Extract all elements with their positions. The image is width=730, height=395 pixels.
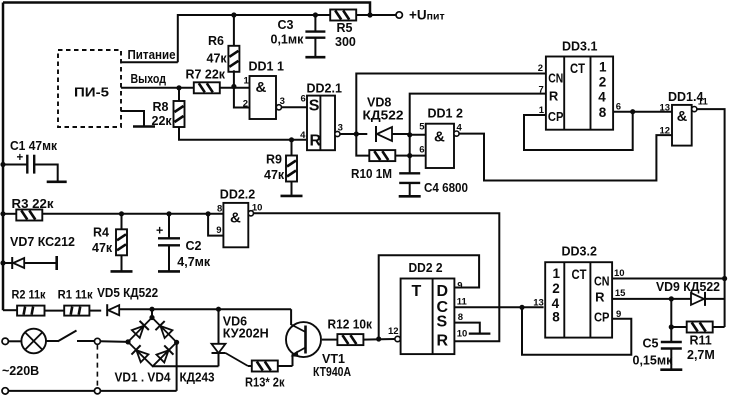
resistor R7 xyxy=(194,82,220,93)
thyristor VD6 xyxy=(218,309,220,344)
svg-text:Выход: Выход xyxy=(131,72,167,86)
svg-text:0,15мк: 0,15мк xyxy=(633,354,674,368)
svg-text:47к: 47к xyxy=(207,52,228,66)
svg-text:+: + xyxy=(156,224,163,238)
svg-text:12: 12 xyxy=(388,326,399,337)
diode VD9 xyxy=(691,292,705,306)
svg-text:R1 11к: R1 11к xyxy=(58,288,94,302)
svg-text:DD2.2: DD2.2 xyxy=(220,188,255,202)
svg-text:CN: CN xyxy=(594,274,610,289)
svg-text:VD1 . VD4: VD1 . VD4 xyxy=(115,371,171,385)
svg-text:DD1 2: DD1 2 xyxy=(428,107,463,121)
svg-text:КД522: КД522 xyxy=(363,109,404,123)
ground of C4 xyxy=(399,195,421,198)
capacitor C2 xyxy=(168,214,170,238)
svg-text:6: 6 xyxy=(419,145,424,156)
svg-text:R2 11к: R2 11к xyxy=(12,287,47,301)
wire VT1 emitter xyxy=(292,355,294,367)
svg-text:15: 15 xyxy=(615,288,626,299)
counter DD3.2 xyxy=(545,262,612,337)
wire R13 to VT1 emitter xyxy=(278,365,293,367)
svg-text:R4: R4 xyxy=(93,226,109,240)
svg-text:C1 47мк: C1 47мк xyxy=(10,139,58,153)
node bridge left xyxy=(125,339,130,344)
svg-text:47к: 47к xyxy=(264,168,285,182)
svg-text:&: & xyxy=(677,109,688,125)
svg-text:300: 300 xyxy=(335,35,356,49)
wire +U top rail xyxy=(3,3,370,16)
svg-text:DD2.1: DD2.1 xyxy=(307,82,342,96)
wire DD1.2 out to DD1.4 pin12 xyxy=(459,134,672,181)
resistor R6 xyxy=(233,15,235,47)
ground of C3 xyxy=(305,56,325,59)
wire VD6 gate to R13 xyxy=(226,353,249,366)
terminal +Upit xyxy=(396,12,402,18)
wire VT1 base to R12 xyxy=(322,339,338,341)
resistor R5 xyxy=(330,10,356,21)
zener diode VD7 xyxy=(0,260,5,265)
svg-text:4: 4 xyxy=(300,130,306,141)
wire DD2.2 out to T-ff R pin10 xyxy=(254,213,500,341)
svg-text:R11: R11 xyxy=(690,334,712,348)
wire DD3.2 CP loop pin9 xyxy=(522,307,631,354)
switch SA xyxy=(46,340,58,342)
svg-text:13: 13 xyxy=(533,298,544,309)
node bridge top xyxy=(149,315,154,320)
svg-text:4: 4 xyxy=(552,296,560,311)
node pin11 pin13 xyxy=(519,305,524,310)
svg-text:CP: CP xyxy=(594,310,610,325)
svg-text:R5: R5 xyxy=(337,21,353,35)
resistor R4 xyxy=(121,214,123,229)
wire DD3.1 out pin6 to DD1.4 pin13 xyxy=(613,111,672,113)
resistor R10 xyxy=(369,150,395,161)
svg-text:4: 4 xyxy=(598,90,606,105)
wire R12 to DD2 pin12 xyxy=(363,338,395,341)
node DD2.2 inputs xyxy=(206,211,211,216)
wire C pin11 out xyxy=(454,306,543,308)
svg-text:R7 22к: R7 22к xyxy=(186,68,226,82)
svg-text:11: 11 xyxy=(698,97,709,108)
ground of C5 xyxy=(660,368,682,371)
diode VD5 xyxy=(89,310,101,312)
svg-text:Питание: Питание xyxy=(128,48,176,62)
wire to bridge right xyxy=(176,342,178,391)
counter DD3.1 xyxy=(546,57,613,130)
svg-text:КТ940А: КТ940А xyxy=(313,365,351,379)
svg-text:9: 9 xyxy=(457,281,462,292)
capacitor C1 xyxy=(0,162,5,167)
svg-text:S: S xyxy=(437,314,448,331)
svg-text:10: 10 xyxy=(457,329,468,340)
diode bridge VD1..VD4 xyxy=(128,318,177,367)
svg-text:CN: CN xyxy=(548,70,563,85)
wire DD2.2 pin9 tie xyxy=(208,214,223,236)
block ПИ-5 xyxy=(58,50,121,127)
svg-text:CT: CT xyxy=(570,61,586,76)
node DD2.1 out junction xyxy=(354,131,359,136)
svg-text:2: 2 xyxy=(243,99,248,110)
svg-text:T: T xyxy=(412,283,422,300)
svg-text:DD2 2: DD2 2 xyxy=(409,261,443,275)
bridge diode VD2 xyxy=(155,321,173,339)
lamp HL xyxy=(8,340,21,342)
wire D feedback loop xyxy=(379,255,479,339)
svg-text:VT1: VT1 xyxy=(322,352,345,366)
svg-text:R3 22к: R3 22к xyxy=(12,197,55,211)
svg-text:S: S xyxy=(309,97,320,114)
ground of ПИ-5 xyxy=(121,111,144,126)
flip-flop DD2.1 xyxy=(307,96,335,151)
svg-text:R: R xyxy=(549,89,559,104)
svg-text:8: 8 xyxy=(217,204,222,215)
capacitor C5 xyxy=(661,341,682,343)
svg-text:8: 8 xyxy=(599,105,607,120)
svg-text:R12 10к: R12 10к xyxy=(328,318,373,332)
resistor R11 xyxy=(670,299,672,342)
svg-text:DD3.2: DD3.2 xyxy=(562,245,597,259)
ground bar of pin8 xyxy=(469,333,491,335)
flip-flop DD2 2 xyxy=(401,279,455,355)
resistor R3 xyxy=(0,211,5,216)
node VD6 top xyxy=(216,307,221,312)
wire DD1.4 out along right edge xyxy=(697,109,725,327)
node Выход R8 R7 xyxy=(176,85,181,90)
wire VT1 collector xyxy=(290,309,292,325)
svg-text:9: 9 xyxy=(216,225,221,236)
bridge diode VD4 xyxy=(156,345,174,363)
resistor R8 xyxy=(178,88,180,101)
svg-text:2: 2 xyxy=(538,63,543,74)
svg-text:11: 11 xyxy=(457,297,468,308)
bridge diode VD3 xyxy=(131,345,149,363)
svg-text:CT: CT xyxy=(572,267,588,282)
svg-text:КУ202Н: КУ202Н xyxy=(223,327,269,341)
wire mains bottom xyxy=(8,390,94,392)
logic gate DD2.2 xyxy=(223,203,248,247)
resistor R12 xyxy=(337,334,363,345)
node C2 top xyxy=(166,211,171,216)
svg-text:VD9 КД522: VD9 КД522 xyxy=(656,280,720,294)
wire to DD3.1 CN pin2 xyxy=(356,74,546,135)
svg-text:1: 1 xyxy=(599,60,607,75)
svg-text:8: 8 xyxy=(458,312,463,323)
svg-text:2,7М: 2,7М xyxy=(687,348,715,362)
node bridge right xyxy=(174,340,179,345)
diode VD8 xyxy=(376,126,392,142)
ground of C2 xyxy=(158,270,180,273)
svg-text:R6: R6 xyxy=(208,34,224,48)
node R5 top rail junction xyxy=(367,12,372,17)
dashed link xyxy=(96,345,98,388)
svg-text:R: R xyxy=(437,332,449,349)
svg-text:R10 1М: R10 1М xyxy=(351,167,392,181)
svg-text:R13* 2к: R13* 2к xyxy=(245,376,285,390)
node pin6 junction xyxy=(630,109,635,114)
wire node column to DD3.1 R pin7 xyxy=(410,94,546,174)
wire DD3.2 CN pin10 xyxy=(612,278,725,280)
svg-text:1: 1 xyxy=(244,76,250,87)
svg-text:1: 1 xyxy=(553,266,561,281)
svg-text:R9: R9 xyxy=(266,153,282,167)
wire VD5 to bridge top and VT1 xyxy=(119,308,291,310)
svg-text:+: + xyxy=(17,152,24,164)
svg-text:0,1мк: 0,1мк xyxy=(271,33,305,47)
node R4 top xyxy=(119,211,124,216)
svg-text:~220В: ~220В xyxy=(2,364,39,378)
wire switch to bridge xyxy=(101,340,129,343)
svg-text:13: 13 xyxy=(660,103,671,114)
svg-text:DD3.1: DD3.1 xyxy=(562,40,597,54)
terminal mains bottom xyxy=(2,388,8,394)
wire Питание from ПИ-5 xyxy=(121,61,178,63)
svg-text:C5: C5 xyxy=(643,337,659,351)
node R6 top xyxy=(231,12,236,17)
resistor R13 xyxy=(252,361,278,372)
capacitor C4 xyxy=(399,172,420,174)
svg-text:&: & xyxy=(230,209,241,226)
resistor R2 xyxy=(3,309,17,311)
svg-text:+Uпит: +Uпит xyxy=(409,8,445,23)
wire DD3.1 CP loop pin1 xyxy=(524,112,633,150)
svg-text:C3: C3 xyxy=(278,18,294,32)
ground of R4 xyxy=(111,270,133,273)
logic gate DD1.4 xyxy=(672,105,692,146)
wire bridge bottom to VD6 cathode xyxy=(153,365,219,367)
node column VD8 R10 xyxy=(407,132,412,137)
svg-text:DD1 1: DD1 1 xyxy=(249,60,284,74)
svg-text:VD7 КС212: VD7 КС212 xyxy=(10,235,75,249)
svg-text:C2: C2 xyxy=(186,239,202,253)
capacitor C3 xyxy=(314,15,316,32)
svg-text:4,7мк: 4,7мк xyxy=(177,255,211,269)
svg-text:2: 2 xyxy=(599,75,607,90)
svg-text:R: R xyxy=(310,133,322,150)
svg-text:VD5 КД522: VD5 КД522 xyxy=(97,286,158,300)
svg-text:CP: CP xyxy=(548,109,564,124)
wire VD8 to node xyxy=(392,133,410,135)
wire power rail to R5 xyxy=(178,15,331,62)
svg-text:&: & xyxy=(434,128,445,145)
svg-text:R8: R8 xyxy=(153,100,169,114)
wire node to DD1.2 pin5 xyxy=(410,134,426,136)
wire Выход from ПИ-5 xyxy=(121,87,194,89)
svg-text:10: 10 xyxy=(614,268,625,279)
terminal mains top xyxy=(2,338,8,344)
svg-text:8: 8 xyxy=(552,310,560,325)
ground of R9 xyxy=(281,195,303,198)
wire left supply bus xyxy=(2,3,5,311)
transistor VT1 xyxy=(286,322,321,357)
wire DD3.2 R pin15 xyxy=(612,298,690,300)
svg-text:VD8: VD8 xyxy=(367,96,391,110)
svg-text:47к: 47к xyxy=(92,241,113,255)
ground of C1 xyxy=(47,181,67,184)
svg-text:R: R xyxy=(595,290,605,305)
svg-text:D: D xyxy=(437,283,449,300)
wire to R10 left xyxy=(356,134,369,156)
wire R5 to +Upit terminal xyxy=(356,14,396,16)
node VD9 R11 C5 xyxy=(669,296,674,301)
svg-text:6: 6 xyxy=(301,94,306,105)
logic gate DD1.2 xyxy=(426,124,454,168)
wire R7 junction to DD1.1 pins xyxy=(220,87,250,89)
svg-text:2: 2 xyxy=(552,281,560,296)
resistor R9 xyxy=(289,137,294,142)
svg-text:22к: 22к xyxy=(152,114,173,128)
svg-text:12: 12 xyxy=(660,126,671,137)
svg-text:ПИ-5: ПИ-5 xyxy=(74,85,109,100)
node R12 T-loop xyxy=(376,336,381,341)
svg-text:C4 6800: C4 6800 xyxy=(424,181,468,195)
svg-text:7: 7 xyxy=(539,85,544,96)
wire node to DD1.2 pin6 xyxy=(410,155,426,157)
wire R3 row xyxy=(43,213,224,215)
node R6 R7 pin1 xyxy=(231,84,236,89)
wire S pin8 to gnd step xyxy=(454,323,479,333)
wire DD2.1 out xyxy=(340,133,367,135)
svg-text:&: & xyxy=(256,79,267,96)
node C3 top xyxy=(313,12,318,17)
bridge diode VD1 xyxy=(131,321,149,339)
svg-text:5: 5 xyxy=(419,122,425,133)
wire DD1.1 out to DD2.1 S xyxy=(282,106,308,108)
resistor R1 xyxy=(45,310,65,312)
logic gate DD1.1 xyxy=(250,76,277,119)
svg-text:КД243: КД243 xyxy=(180,371,215,385)
